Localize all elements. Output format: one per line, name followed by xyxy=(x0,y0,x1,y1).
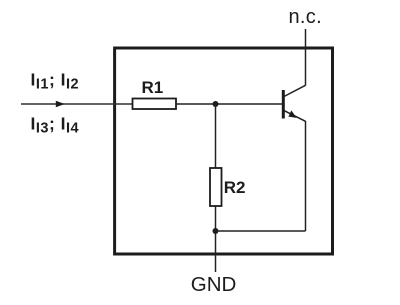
svg-text:GND: GND xyxy=(191,273,237,296)
svg-text:R2: R2 xyxy=(224,178,246,197)
svg-text:n.c.: n.c. xyxy=(289,6,322,28)
svg-text:R1: R1 xyxy=(142,78,164,97)
